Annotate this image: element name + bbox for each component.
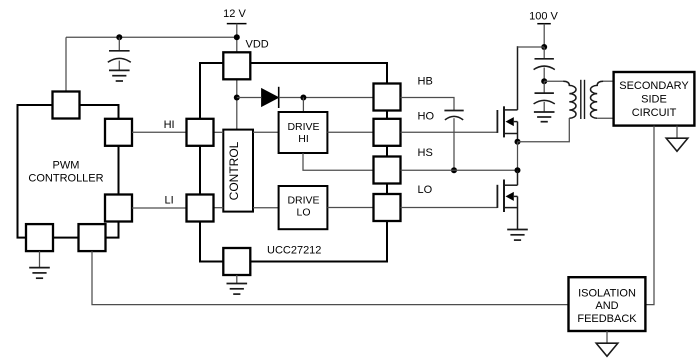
wire diode cathode to HB pin <box>279 97 374 99</box>
wire diode anode <box>237 97 262 99</box>
12 V supply <box>223 8 246 24</box>
pin HS <box>374 157 401 184</box>
svg-text:100 V: 100 V <box>529 10 558 22</box>
node HS-lowFET junction <box>515 167 521 173</box>
wire rail to PWM top pin <box>65 37 67 92</box>
wire LI net <box>132 207 187 209</box>
svg-text:SECONDARY: SECONDARY <box>619 80 689 92</box>
svg-text:VDD: VDD <box>246 39 269 51</box>
wire LI pin to CONTROL <box>214 207 224 209</box>
100 V supply <box>529 10 558 23</box>
diode D1 <box>262 87 279 108</box>
wire primary top <box>544 80 563 82</box>
pin VDD <box>223 52 250 79</box>
wire DRIVE LO to LO pin <box>327 207 373 209</box>
pin HO <box>374 119 401 146</box>
wire HS to switch node <box>517 142 519 171</box>
svg-text:LI: LI <box>165 195 174 207</box>
svg-text:CONTROLLER: CONTROLLER <box>28 173 103 185</box>
wire LO net <box>401 207 498 209</box>
svg-text:PWM: PWM <box>53 160 80 172</box>
capacitor C3 <box>534 81 555 112</box>
svg-text:SIDE: SIDE <box>641 93 667 105</box>
drive HI block <box>279 112 328 153</box>
wire DRIVE HI to HS pin <box>303 153 374 170</box>
secondary side circuit box <box>614 72 695 126</box>
ground C3 <box>534 112 555 122</box>
ground secondary (triangle) <box>666 126 688 152</box>
svg-text:HO: HO <box>418 111 435 123</box>
wire CONTROL to DRIVE HI <box>253 131 279 133</box>
node boot-HS junction <box>451 167 457 173</box>
wire HI net <box>132 131 187 133</box>
wire 100V to drain <box>518 46 545 48</box>
wire CONTROL to DRIVE LO <box>253 207 279 209</box>
pin PWM VCC (top) <box>53 92 80 119</box>
PWM controller box <box>18 105 119 238</box>
transformer T1 primary <box>563 81 576 118</box>
wire IC gnd stub <box>236 275 238 283</box>
wire 12V rail <box>66 36 237 38</box>
svg-text:CIRCUIT: CIRCUIT <box>632 107 677 119</box>
capacitor C2 <box>534 47 555 81</box>
svg-text:HB: HB <box>418 76 433 88</box>
svg-text:CONTROL: CONTROL <box>227 141 241 200</box>
wire 100V stub <box>543 24 545 47</box>
node cap divider junction <box>541 78 547 84</box>
svg-text:FEEDBACK: FEEDBACK <box>577 313 637 325</box>
ground Q2 <box>507 230 528 241</box>
node rail-VDD junction <box>234 34 240 40</box>
wire secondary box to feedback <box>645 126 654 305</box>
svg-text:HS: HS <box>418 147 433 159</box>
pin PWM HI out <box>105 119 132 146</box>
wire VDD to CONTROL <box>236 79 238 130</box>
pin HB <box>374 84 401 111</box>
wire HI pin to CONTROL <box>214 131 224 133</box>
pin PWM FB <box>79 224 106 251</box>
capacitor C-boot <box>444 111 463 120</box>
wire DRIVE HI to HO pin <box>327 131 373 133</box>
transistor Q2 (low-side NMOS) <box>497 170 517 229</box>
svg-text:HI: HI <box>164 119 175 131</box>
capacitor C1 <box>108 37 131 70</box>
pin PWM GND <box>26 224 53 251</box>
transistor Q1 (high-side NMOS) <box>497 46 517 142</box>
control block <box>223 130 253 212</box>
pin IC LI <box>187 195 214 222</box>
ground C1 <box>109 70 130 81</box>
wire secondary bottom <box>597 117 613 119</box>
wire HO net <box>401 131 498 133</box>
transformer T1 core <box>581 80 585 119</box>
isolation and feedback box <box>569 277 646 331</box>
wire bootstrap to HS <box>453 118 455 170</box>
wire 12V stub <box>236 24 238 53</box>
drive LO block <box>279 186 328 229</box>
wire primary bottom to switch node <box>518 118 570 142</box>
node rail-cap junction <box>116 34 122 40</box>
node switch node <box>515 139 521 145</box>
svg-text:AND: AND <box>595 300 618 312</box>
ground isolation (triangle) <box>596 331 618 356</box>
wire to DRIVE HI top <box>302 98 304 113</box>
svg-text:UCC27212: UCC27212 <box>267 245 321 257</box>
svg-text:DRIVE: DRIVE <box>287 194 319 206</box>
svg-text:DRIVE: DRIVE <box>287 121 319 133</box>
pin IC HI <box>187 119 214 146</box>
ground PWM <box>29 268 50 279</box>
transformer T1 secondary <box>590 81 603 118</box>
op UCC27212 IC box <box>200 63 387 262</box>
wire HB net <box>401 98 455 111</box>
wire HS net <box>401 169 518 171</box>
pin IC VSS <box>223 248 250 275</box>
svg-text:LO: LO <box>296 207 310 219</box>
node VDD-diode junction <box>234 95 240 101</box>
pin LO <box>374 194 401 221</box>
wire PWM gnd stub <box>39 251 41 267</box>
node 100V junction <box>541 44 547 50</box>
svg-text:HI: HI <box>298 133 309 145</box>
pin PWM LI out <box>105 195 132 222</box>
node bootstrap junction <box>300 95 306 101</box>
wire feedback from PWM <box>92 251 569 305</box>
svg-text:ISOLATION: ISOLATION <box>578 287 636 299</box>
wire secondary top <box>603 80 614 82</box>
ground IC <box>227 284 248 295</box>
svg-text:12 V: 12 V <box>223 8 246 20</box>
svg-text:LO: LO <box>418 184 433 196</box>
